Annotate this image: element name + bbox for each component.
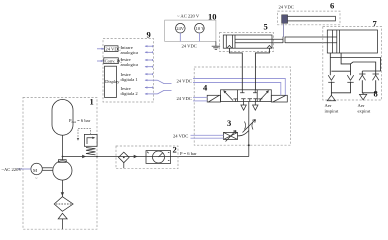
svg-text:expirat: expirat: [358, 109, 371, 114]
intake filter triangle: [58, 213, 67, 219]
center position blocked ports: [240, 90, 258, 102]
rod to cylinder 7: [285, 36, 337, 38]
shaft: [42, 167, 53, 169]
wire 10V circle to box edge: [198, 33, 200, 41]
rod coupling: [282, 37, 284, 43]
svg-text:analogica: analogica: [121, 50, 139, 55]
arrow stub intrare analogica a: [145, 45, 153, 47]
drop to check 3: [361, 71, 363, 75]
svg-text:digitala 2: digitala 2: [121, 91, 139, 96]
arrow stub intrare analogica b: [145, 51, 153, 53]
port A line: [229, 48, 242, 90]
svg-text:Display: Display: [105, 79, 120, 84]
controller dashed box 9: [103, 39, 154, 103]
arrow stub iesire analogica a: [145, 59, 153, 61]
arrow stub iesire analogica b: [145, 66, 153, 68]
svg-text:24 VDC: 24 VDC: [173, 134, 188, 139]
intake triangle: [327, 95, 335, 100]
Conv. PC block: [104, 58, 119, 64]
svg-text:24 VDC: 24 VDC: [177, 96, 192, 101]
power supply box 10: [165, 20, 216, 41]
sensor link to rod: [283, 23, 285, 37]
suction line with arrow: [61, 180, 63, 197]
svg-text:inspirat: inspirat: [325, 109, 340, 114]
right position flow diagonal: [260, 91, 269, 100]
exhaust triangle: [360, 94, 367, 99]
cylinder 5 dashed box: [220, 33, 274, 52]
intake stub: [61, 219, 63, 229]
lung unit dashed box: [323, 27, 382, 101]
svg-text:5: 5: [264, 22, 268, 32]
air receiver tank: [52, 100, 73, 136]
exhaust stub S: [254, 102, 256, 106]
pressure gauge unit: [146, 151, 171, 164]
arrow into 24VDC block: [97, 48, 104, 50]
Display block: [105, 66, 117, 97]
compressor unit dashed box 1: [23, 97, 97, 229]
supply riser to valve 4: [248, 102, 250, 157]
left position flow diagonal: [224, 91, 233, 100]
check valve 1: [328, 75, 334, 80]
junction dot tank line: [62, 156, 64, 158]
drop to check 2: [350, 64, 352, 75]
relief valve spring: [86, 148, 96, 155]
intake water separator diamond: [54, 197, 73, 212]
port fitting right: [267, 45, 272, 48]
port B line: [255, 48, 269, 90]
wire iesire digitala 2 with break: [145, 93, 158, 95]
compressor: [53, 161, 72, 180]
svg-text:24 VDC: 24 VDC: [182, 43, 197, 48]
cable to right solenoid: [193, 79, 285, 96]
svg-text:2: 2: [173, 145, 177, 155]
restrictor arrow: [243, 120, 256, 133]
valve 4 body: [221, 90, 272, 102]
manifold line top: [330, 58, 380, 72]
variable restrictor arcs: [245, 122, 254, 130]
svg-text:24 VDC: 24 VDC: [105, 46, 120, 51]
piston 7: [336, 30, 338, 53]
potentiometer bar: [284, 16, 336, 21]
intake drop: [330, 93, 332, 96]
svg-text:Aer: Aer: [325, 103, 332, 108]
exhaust triangle R: [241, 105, 246, 110]
exhaust drop: [362, 93, 364, 95]
sensor dashed box 6: [278, 11, 340, 25]
right solenoid: [271, 95, 287, 102]
jog and line to check 4: [351, 62, 376, 75]
main line out of compressor: [63, 156, 249, 158]
junction dot supply crossing: [248, 144, 250, 146]
svg-text:M: M: [33, 168, 37, 173]
port line A7: [329, 53, 331, 75]
piston: [232, 35, 234, 48]
pressure relief valve: [84, 134, 97, 146]
port line B7: [341, 53, 350, 64]
wire AC to motor: [18, 168, 31, 170]
24V source circle: [176, 23, 186, 33]
arrow into Conv PC block: [97, 60, 103, 62]
24 VDC input block: [105, 46, 119, 52]
wire tank to junction: [62, 135, 64, 160]
flow arrow after filter: [134, 155, 138, 158]
svg-text:3: 3: [227, 118, 231, 128]
wire iesire digitala 1 with break: [145, 79, 158, 81]
valves dashed box: [194, 67, 290, 145]
port fitting left: [227, 45, 232, 48]
cable to valve 3: [191, 134, 224, 136]
relief valve pilot dashed line: [78, 128, 91, 138]
piston rod: [235, 38, 283, 40]
check valve 3: [359, 75, 365, 80]
left solenoid: [207, 95, 220, 102]
cable to left solenoid: [193, 96, 207, 98]
arrow stub iesire digitala 2: [145, 87, 153, 89]
intake bus: [331, 82, 350, 93]
check valve 2: [347, 75, 353, 80]
motor M: [31, 163, 42, 174]
cylinder 5 body: [223, 35, 272, 48]
svg-text:P = 6 bar: P = 6 bar: [180, 151, 197, 156]
svg-text:24 VDC: 24 VDC: [279, 5, 294, 10]
check valve 4: [373, 75, 379, 80]
wire 24V circle to box edge: [179, 33, 181, 41]
10V source circle: [195, 23, 205, 33]
filter with separator: [119, 152, 130, 163]
svg-text:9: 9: [147, 30, 151, 40]
arrow stub iesire digitala 1: [145, 73, 153, 75]
top bus left pair: [331, 70, 350, 72]
svg-text:6: 6: [330, 1, 334, 11]
sensor head: [282, 15, 288, 23]
exhaust stub R: [243, 102, 245, 106]
svg-text:24 VDC: 24 VDC: [177, 78, 192, 83]
exhaust triangle S: [253, 105, 258, 110]
valve 3 link curve: [238, 131, 249, 136]
svg-text:8: 8: [374, 89, 378, 99]
svg-text:~AC 220V: ~AC 220V: [2, 167, 23, 172]
svg-text:10 V: 10 V: [196, 26, 206, 31]
flow arrow on main line inside box 1: [82, 155, 86, 158]
service unit dashed box 2: [116, 146, 178, 169]
svg-text:24V: 24V: [176, 26, 185, 31]
svg-text:digitala 1: digitala 1: [121, 77, 139, 82]
ground: [215, 41, 217, 46]
valve 3 proportional solenoid box: [224, 132, 238, 139]
cylinder 7 body: [327, 30, 377, 53]
svg-text:~ AC 220 V: ~ AC 220 V: [177, 14, 200, 19]
junction dot box edge: [96, 156, 98, 158]
svg-text:analogica: analogica: [121, 62, 139, 67]
svg-text:Aer: Aer: [358, 103, 365, 108]
svg-text:1: 1: [90, 97, 94, 107]
exhaust bus: [362, 80, 375, 93]
